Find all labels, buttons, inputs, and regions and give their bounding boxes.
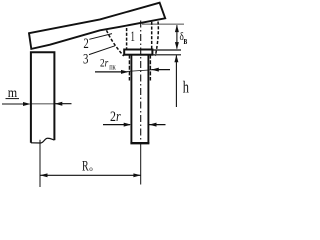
m dimension [2,86,72,106]
dashed arc right (melt boundary) [155,22,158,57]
svg-text:o: o [89,165,93,173]
svg-text:пк: пк [109,61,116,71]
delta_v dimension arrow [175,25,187,50]
surface reference line (gray) [142,23,184,25]
svg-text:3: 3 [83,51,88,67]
svg-text:2r: 2r [110,109,121,125]
2r dimension (rod diameter) [103,109,166,127]
svg-text:1: 1 [130,29,135,45]
dashed melt-zone vertical right (below cap) [149,55,151,81]
dashed arc left (melt boundary) [107,30,124,56]
left bar centerline [39,140,41,187]
dashed melt-zone vertical left (above cap) [126,28,128,49]
svg-text:2r: 2r [100,58,109,70]
svg-text:в: в [184,35,188,47]
wavy break line at bar bottom [31,138,55,143]
svg-text:h: h [183,77,190,96]
dashed melt-zone vertical right (above cap) [151,22,153,50]
rod centerline extension below [140,143,142,184]
beam (tilted contact arm, part 2) [29,3,165,49]
dashed melt-zone vertical left (below cap) [128,55,130,81]
label 3 with leader [83,46,115,68]
cap bottom extension line [152,54,181,56]
svg-text:2: 2 [83,36,88,52]
svg-text:R: R [82,159,89,175]
2r_pk dimension (contact spot diameter) [95,58,170,74]
label 2 with leader [83,34,112,53]
cap top extension line [152,49,181,51]
rod (fixed contact post) [130,55,132,144]
h dimension [174,55,189,107]
rod centerline (dash-dot) [140,21,142,144]
melted cap at rod top [124,50,152,55]
left vertical bar (brush, width m) [31,52,55,143]
R_o dimension [40,159,141,178]
